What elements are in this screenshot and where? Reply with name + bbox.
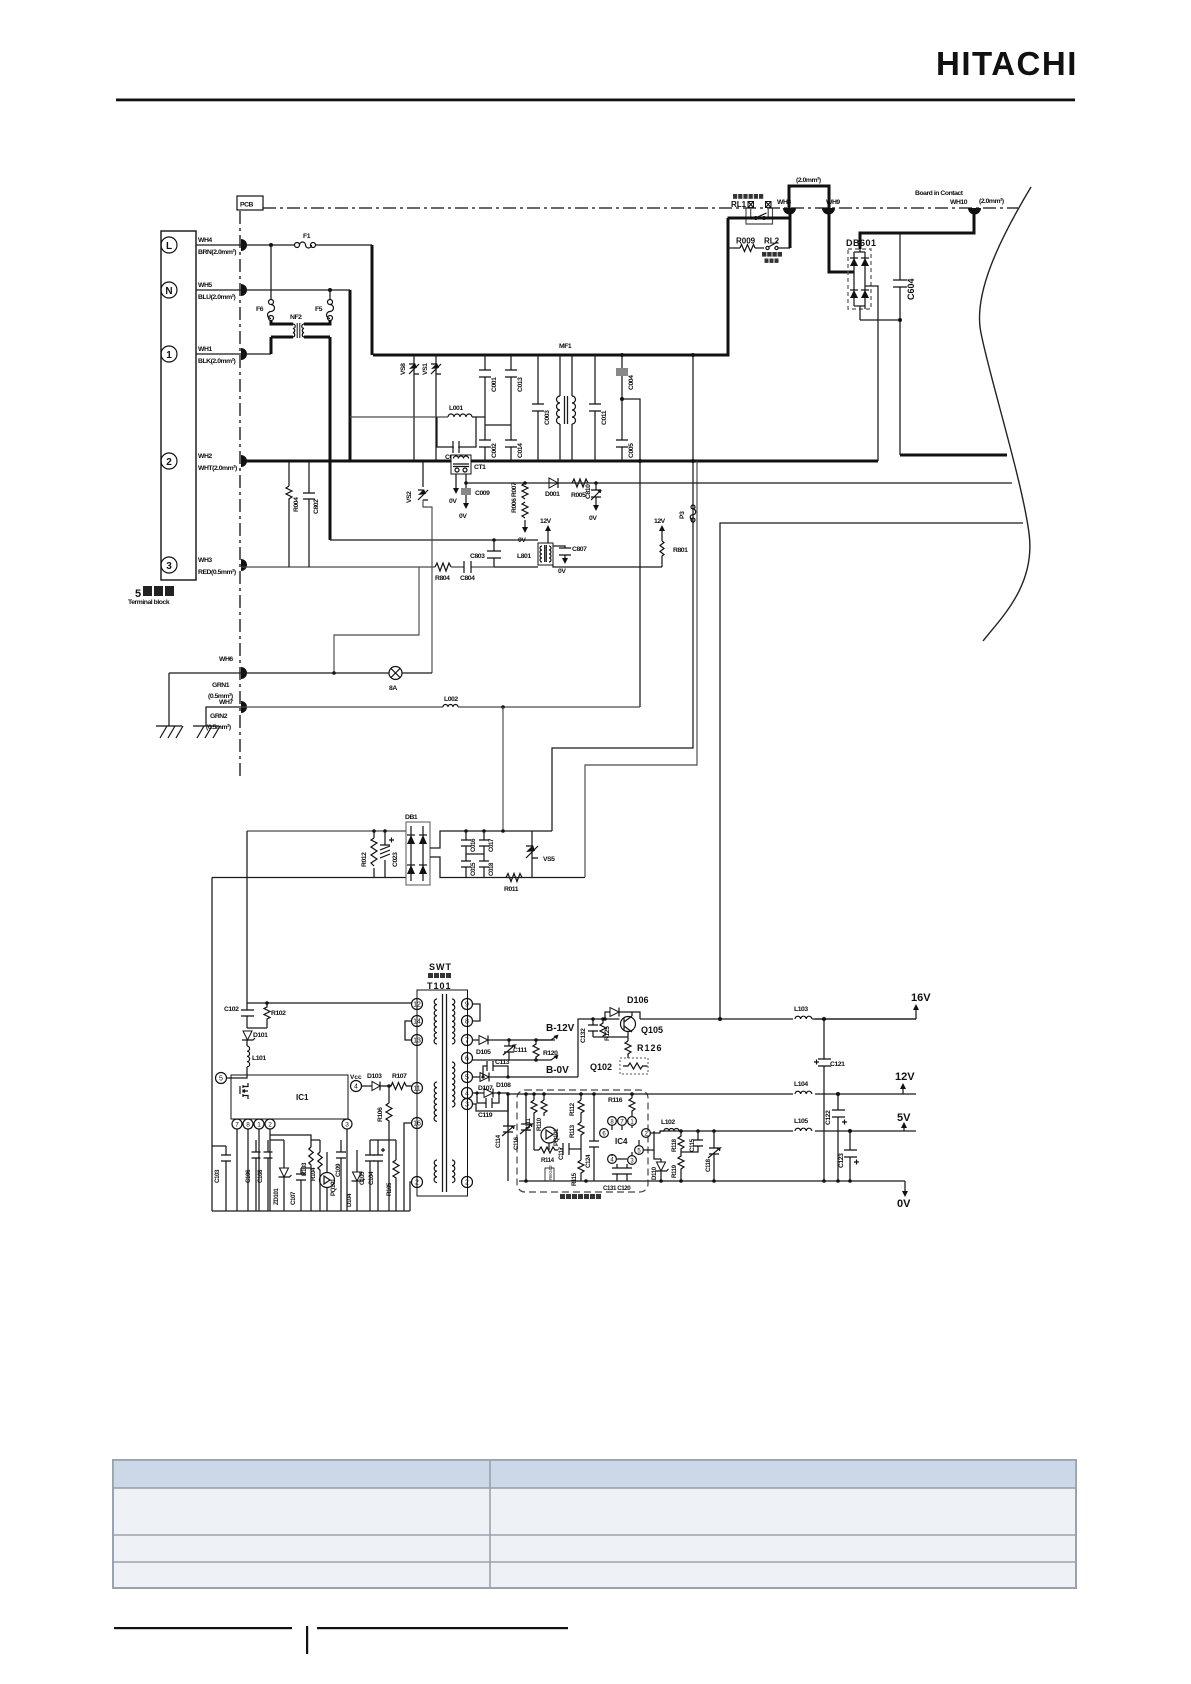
svg-text:BLU(2.0mm²): BLU(2.0mm²) (198, 294, 236, 301)
svg-text:L104: L104 (794, 1081, 808, 1088)
wire relay contact row (728, 217, 791, 220)
fuse P3 (690, 505, 696, 522)
svg-text:R111: R111 (525, 1118, 532, 1131)
svg-text:8: 8 (465, 1019, 469, 1026)
header rule (116, 99, 1075, 102)
svg-text:N: N (165, 286, 172, 297)
svg-text:C115: C115 (689, 1138, 696, 1152)
svg-text:D108: D108 (496, 1082, 511, 1089)
svg-text:PQ101: PQ101 (553, 1128, 560, 1146)
svg-text:SWT: SWT (429, 962, 452, 972)
svg-text:RL1: RL1 (731, 200, 747, 209)
torn-page curve (979, 187, 1031, 641)
relay contact RL2 (762, 237, 790, 263)
IC1 pin drops (237, 1129, 347, 1211)
ground (left) (156, 726, 183, 738)
svg-text:C104: C104 (368, 1171, 375, 1185)
svg-text:0V: 0V (449, 498, 457, 505)
svg-text:C804: C804 (460, 575, 475, 582)
capacitor C132 (580, 1017, 598, 1043)
capacitor C113 (483, 1059, 510, 1077)
IC1 pin 8 (243, 1119, 253, 1129)
svg-text:13: 13 (413, 1038, 421, 1045)
svg-text:14: 14 (413, 1019, 421, 1026)
svg-text:3: 3 (166, 561, 172, 572)
svg-text:WH7: WH7 (219, 699, 233, 706)
svg-text:Vcc: Vcc (350, 1074, 362, 1081)
primary bottom bus (212, 1210, 410, 1212)
wire NF2 right-bottom trunk down (329, 337, 332, 540)
svg-text:11: 11 (413, 1086, 420, 1093)
svg-text:BRN(2.0mm²): BRN(2.0mm²) (198, 249, 236, 256)
wire emitter row (593, 1032, 628, 1041)
IC4 pin 7 (618, 1117, 627, 1126)
resistor R106 drop (377, 1086, 392, 1211)
node WH1 (241, 348, 247, 360)
svg-text:R106: R106 (377, 1107, 384, 1122)
svg-text:C001: C001 (491, 377, 498, 392)
svg-text:VS2: VS2 (406, 491, 413, 503)
resistor R107 (380, 1073, 411, 1090)
wire pin5 row (472, 1076, 480, 1078)
svg-text:GRN2: GRN2 (210, 713, 228, 720)
svg-text:R004: R004 (293, 497, 300, 512)
svg-text:(2.0mm²): (2.0mm²) (979, 198, 1004, 205)
T101 pin 7 (462, 1035, 473, 1046)
T101 pin 13 (412, 1035, 423, 1046)
svg-text:C807: C807 (572, 546, 587, 553)
svg-text:C113: C113 (495, 1059, 510, 1066)
capacitor C001 (479, 355, 498, 425)
left trunk x212 (211, 878, 213, 1212)
svg-text:R112: R112 (569, 1102, 576, 1116)
svg-text:HITACHI: HITACHI (936, 45, 1078, 82)
resistor R103 (301, 1140, 313, 1211)
svg-text:R804: R804 (435, 575, 450, 582)
resistor R102 (247, 1001, 286, 1028)
svg-text:R801: R801 (673, 547, 688, 554)
wire CT1 right pin to row (466, 474, 1012, 483)
trunk x720 (720, 523, 1023, 1019)
svg-text:Q102: Q102 (590, 1062, 612, 1072)
lamp 8A (389, 667, 402, 693)
svg-text:C103: C103 (214, 1169, 221, 1183)
IC4 pin 4 (608, 1155, 617, 1164)
wire N row (196, 289, 350, 291)
resistors R007 R006 (511, 481, 528, 544)
capacitor C119 (475, 1091, 500, 1119)
svg-text:PQ101: PQ101 (330, 1178, 337, 1196)
trunk x697 (585, 461, 697, 877)
svg-text:L001: L001 (449, 405, 463, 412)
svg-text:D107: D107 (478, 1085, 493, 1092)
resistor R114 (534, 1116, 558, 1164)
svg-text:4: 4 (354, 1084, 358, 1091)
capacitor C004 (electrolytic) (616, 353, 635, 401)
svg-text:C114: C114 (495, 1134, 502, 1148)
svg-text:RL2: RL2 (764, 237, 780, 246)
capacitor C123 (838, 1129, 859, 1183)
svg-text:WH5: WH5 (198, 282, 212, 289)
resistor R125 (600, 1017, 611, 1041)
photocoupler PQ101b (541, 1127, 560, 1146)
svg-text:7: 7 (235, 1122, 239, 1129)
inductor L105 (793, 1118, 815, 1136)
svg-text:C017: C017 (488, 838, 495, 852)
wire top row (247, 830, 406, 832)
resistor R105 (386, 1140, 399, 1211)
inductor L002 (443, 696, 458, 707)
0V bus (519, 1180, 905, 1182)
wire WH7 row (241, 706, 443, 708)
svg-text:R126: R126 (637, 1043, 663, 1053)
svg-text:R011: R011 (504, 886, 519, 893)
IC4 pin 5 (635, 1146, 644, 1155)
svg-text:F1: F1 (303, 233, 311, 240)
svg-text:12V: 12V (654, 518, 666, 525)
resistor R119 (671, 1152, 684, 1181)
svg-text:R116: R116 (608, 1097, 623, 1104)
T101 pin 16 (412, 1118, 423, 1129)
thick WH10 drop (860, 208, 974, 249)
svg-text:C122: C122 (825, 1110, 832, 1125)
svg-text:WH3: WH3 (198, 557, 212, 564)
svg-text:R110: R110 (536, 1117, 543, 1131)
IC4 pin 2 (642, 1129, 651, 1138)
svg-text:C803: C803 (470, 553, 485, 560)
T101 pin 6 (462, 1053, 473, 1064)
svg-text:R102: R102 (271, 1010, 286, 1017)
varistor VS1 (422, 355, 441, 461)
resistor R801 (654, 518, 688, 567)
svg-text:C013: C013 (517, 377, 524, 392)
T101 pin 5 (462, 1072, 473, 1083)
12V rail from box (508, 1093, 916, 1095)
transistor Q105 (621, 1012, 664, 1035)
varistor VS5 (526, 831, 555, 878)
svg-text:(2.0mm²): (2.0mm²) (796, 177, 821, 184)
left trunk x247 (246, 831, 248, 1003)
transformer L801 (517, 543, 553, 565)
inductor L101 (227, 1040, 266, 1078)
wire N trunk down to bus2 (349, 290, 352, 460)
IC4 pin 1 (628, 1117, 637, 1126)
svg-text:2: 2 (415, 1180, 419, 1187)
svg-text:C002: C002 (491, 443, 498, 458)
svg-text:16V: 16V (911, 992, 931, 1004)
svg-text:F6: F6 (256, 306, 264, 313)
svg-text:5: 5 (219, 1076, 223, 1083)
wire L row (196, 244, 294, 246)
wire pin3 row merge (472, 1094, 508, 1111)
wire branch to F6 (270, 245, 272, 299)
svg-text:R125: R125 (604, 1026, 611, 1041)
IC1 pin 5 (216, 1073, 227, 1084)
svg-text:DB601: DB601 (846, 238, 877, 248)
node WH2 (241, 455, 247, 467)
riser x334 (334, 567, 419, 673)
capacitor C013 (505, 355, 524, 425)
diode D001 (545, 478, 560, 498)
svg-text:C018: C018 (488, 862, 495, 876)
capacitor C016 (461, 829, 477, 854)
IC1 pin 7 (232, 1119, 242, 1129)
wire Q105 collector to 16V rail (632, 1012, 640, 1019)
svg-text:16: 16 (413, 1121, 421, 1128)
capacitor C111 (503, 1038, 527, 1060)
label shorten wiring note (560, 1194, 601, 1199)
svg-text:C107: C107 (290, 1191, 297, 1205)
varistor VS2 (406, 461, 432, 673)
wire mid caps (466, 853, 484, 855)
IC1 pin 3 (342, 1119, 352, 1129)
svg-text:IC1: IC1 (296, 1093, 309, 1102)
bridge DB1 (405, 814, 430, 885)
svg-text:WH6: WH6 (219, 656, 233, 663)
capacitor C009 (459, 481, 490, 520)
capacitor C105 (359, 1140, 375, 1211)
16V arrow (911, 992, 931, 1019)
node WH8 (783, 208, 796, 215)
capacitor C118 variable (705, 1129, 720, 1181)
svg-text:C106: C106 (245, 1169, 252, 1183)
svg-text:C111: C111 (513, 1047, 527, 1054)
wire row567 WH3 (241, 566, 435, 568)
resistor R118 (671, 1129, 684, 1152)
svg-text:L105: L105 (794, 1118, 808, 1125)
svg-text:PCB: PCB (240, 202, 254, 209)
PCB border horizontal (263, 207, 1018, 209)
capacitor C107 (290, 1168, 311, 1211)
svg-text:C023: C023 (392, 852, 399, 867)
wire C004 to trunk x640 (622, 399, 640, 707)
IC4 pin 6 (600, 1129, 609, 1138)
ground (right) (193, 726, 220, 738)
svg-text:D103: D103 (367, 1073, 382, 1080)
thick jumper WH8-WH9 (789, 186, 829, 208)
IC4 pin 3 (628, 1156, 637, 1165)
zener ZD101 (270, 1140, 292, 1211)
capacitors C131 C120 (603, 1164, 632, 1192)
capacitor C121 (814, 1017, 845, 1183)
resistor R120 (533, 1038, 558, 1062)
inductor L104 (793, 1081, 815, 1099)
svg-text:0V: 0V (459, 513, 467, 520)
resistor R116 (608, 1094, 635, 1116)
svg-text:C014: C014 (517, 443, 524, 458)
capacitor C803 (470, 538, 501, 567)
svg-text:3: 3 (345, 1122, 349, 1129)
wire DB1 right bottom (430, 857, 585, 878)
diode D103 (361, 1073, 382, 1091)
svg-text:R009: R009 (736, 237, 756, 246)
node WH6 (241, 667, 247, 679)
svg-text:REG02: REG02 (548, 1165, 553, 1180)
svg-text:D105: D105 (476, 1049, 491, 1056)
svg-text:2: 2 (465, 1180, 469, 1187)
svg-text:C132: C132 (580, 1028, 587, 1043)
svg-text:R107: R107 (392, 1073, 407, 1080)
capacitor C011 (589, 355, 608, 461)
svg-text:DB1: DB1 (405, 814, 418, 821)
svg-text:0V: 0V (589, 515, 597, 522)
IC1 pin 1 (254, 1119, 264, 1129)
svg-text:1: 1 (257, 1122, 261, 1129)
capacitor C017 (479, 829, 495, 854)
resistor R011 (504, 874, 522, 894)
svg-text:C003: C003 (544, 410, 551, 425)
svg-text:D110: D110 (651, 1166, 658, 1180)
T101 pin 2 right (462, 1177, 473, 1188)
svg-text:L801: L801 (517, 553, 531, 560)
wire branch to F5 (329, 290, 331, 299)
svg-text:IC4: IC4 (615, 1137, 628, 1146)
svg-text:C016: C016 (470, 838, 477, 852)
svg-text:R114: R114 (541, 1157, 555, 1164)
thick WH8 drop to relay rows (789, 208, 792, 248)
resistor R005 (571, 479, 588, 499)
resistor R012 (361, 829, 377, 877)
svg-text:C810: C810 (585, 484, 592, 499)
svg-text:WH10: WH10 (950, 199, 968, 206)
0V arrow left pin (449, 474, 459, 505)
svg-text:VS8: VS8 (400, 363, 407, 375)
wire row540 (330, 539, 538, 541)
capacitor C109 (335, 1140, 346, 1211)
svg-text:WHT(2.0mm²): WHT(2.0mm²) (198, 465, 237, 472)
svg-text:12V: 12V (895, 1071, 915, 1083)
svg-text:8: 8 (246, 1122, 250, 1129)
svg-text:C009: C009 (475, 490, 490, 497)
svg-text:WH2: WH2 (198, 453, 212, 460)
capacitor C804 (451, 561, 494, 582)
capacitor C604 (893, 233, 916, 455)
T101 pin 8 (462, 1016, 473, 1027)
svg-text:R012: R012 (361, 852, 368, 867)
svg-text:B-0V: B-0V (546, 1065, 569, 1076)
resistor R112 (569, 1094, 584, 1122)
capacitor C122 (825, 1092, 847, 1183)
label 5-terminal block (128, 586, 174, 606)
zener D104 (346, 1150, 365, 1211)
svg-text:0V: 0V (558, 568, 566, 575)
capacitor C807 (553, 546, 587, 575)
resistor R111 (525, 1094, 537, 1131)
T101 pin 9 (462, 999, 473, 1010)
inductor L001 with C012 (350, 405, 485, 461)
wire DB601 right (865, 286, 878, 461)
svg-text:ZD101: ZD101 (273, 1188, 280, 1205)
bridge DB601 (846, 238, 877, 320)
svg-text:C005: C005 (628, 443, 635, 458)
wire Q105 base row (593, 1018, 620, 1020)
svg-text:D106: D106 (627, 995, 649, 1005)
transformer MF1 (557, 343, 576, 461)
capacitor C115 (681, 1129, 703, 1152)
diode D107 (478, 1073, 578, 1093)
svg-text:0V: 0V (897, 1198, 911, 1210)
terminal block outline (161, 231, 196, 580)
resistor R126 (625, 1041, 663, 1058)
wire DB1 right top (430, 831, 552, 848)
winding stub 14-13 (405, 1021, 411, 1040)
thick bus right segment (900, 454, 1007, 457)
trunk x693 (552, 355, 693, 831)
svg-text:Q105: Q105 (641, 1025, 663, 1035)
capacitor C116 (513, 1094, 532, 1181)
svg-text:4: 4 (465, 1091, 469, 1098)
resistor R009 (728, 237, 764, 252)
svg-text:RED(0.5mm²): RED(0.5mm²) (198, 569, 236, 576)
svg-text:2: 2 (166, 457, 172, 468)
resistor R804 (435, 563, 451, 582)
capacitor C005 (616, 399, 635, 461)
capacitor C003 (532, 355, 551, 461)
svg-text:2: 2 (268, 1122, 272, 1129)
svg-text:D001: D001 (545, 491, 560, 498)
svg-text:B-12V: B-12V (546, 1023, 575, 1034)
svg-text:5V: 5V (897, 1112, 911, 1124)
photocoupler PQ101 (320, 1152, 338, 1211)
wire NF2 left-bottom down to 1 row (270, 337, 273, 354)
terminal 2 (161, 453, 177, 469)
inductor L103 (793, 1006, 916, 1024)
12V arrow above L801 (540, 518, 552, 543)
svg-text:C117: C117 (558, 1146, 565, 1160)
svg-text:C105: C105 (359, 1171, 366, 1185)
svg-text:VS1: VS1 (422, 363, 429, 375)
svg-text:WH1: WH1 (198, 346, 212, 353)
capacitor C104 (368, 1140, 385, 1211)
node WH9 (822, 208, 835, 215)
relay RL1 (731, 194, 773, 224)
svg-text:C124: C124 (585, 1154, 592, 1168)
IC1 box (231, 1075, 348, 1119)
capacitor C108 (257, 1140, 273, 1211)
wire L002 to x640 (458, 706, 640, 708)
wire pin7 row (472, 1039, 479, 1041)
svg-text:1: 1 (166, 350, 172, 361)
small box REG (545, 1165, 554, 1181)
T101 pin 11 (412, 1083, 423, 1094)
current transformer CT1 (451, 455, 486, 474)
wire pin16 row (404, 1123, 411, 1211)
svg-text:L002: L002 (444, 696, 458, 703)
IC4 pin 8 (608, 1117, 617, 1126)
terminal 1 (161, 346, 177, 362)
junction (269, 243, 273, 247)
winding stub 9-8 (472, 1004, 480, 1021)
wire row to pin12 (247, 1002, 411, 1004)
terminal 3 (161, 557, 177, 573)
node WH4 (241, 239, 247, 251)
T101 pin 12 (412, 999, 423, 1010)
fuse F5 (327, 300, 334, 321)
svg-text:C121: C121 (830, 1061, 845, 1068)
svg-text:WH4: WH4 (198, 237, 212, 244)
PCB label (237, 196, 263, 210)
capacitor C124 (585, 1094, 599, 1181)
svg-text:C119: C119 (478, 1112, 493, 1119)
svg-text:C802: C802 (313, 499, 320, 514)
svg-text:R115: R115 (571, 1172, 578, 1186)
varistor VS8 (400, 355, 419, 461)
capacitor C114 (495, 1094, 514, 1181)
PCB border vertical (239, 211, 241, 778)
svg-text:9: 9 (465, 1002, 469, 1009)
svg-text:12: 12 (413, 1002, 421, 1009)
resistor R110 (536, 1094, 547, 1131)
